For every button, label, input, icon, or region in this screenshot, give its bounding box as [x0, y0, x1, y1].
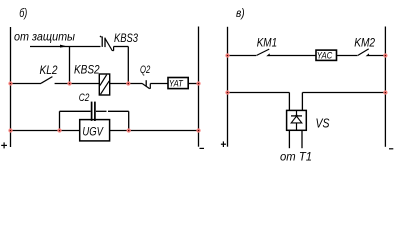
contact KM2 moving lever	[358, 49, 369, 56]
contact KM1 moving lever	[257, 49, 270, 55]
node dot: KBS3 drop / middle wire junction	[126, 81, 130, 85]
wire: KL2 to KBS2	[55, 83, 100, 85]
left supply rail (+) of circuit b	[10, 27, 12, 147]
node dot: circuit v left rail / lower wire	[225, 90, 229, 94]
right supply rail (-) of circuit b	[198, 27, 200, 147]
contact KL2 moving lever	[41, 77, 52, 84]
thyristor VS cathode bar	[291, 115, 302, 117]
wire: KM1 to YAC	[269, 55, 316, 57]
wire: UGV to right rail	[110, 130, 199, 132]
svg-text:UGV: UGV	[82, 124, 103, 138]
wire: KBS3 drop to middle wire	[127, 47, 129, 84]
wire: C2 branch left horizontal	[60, 110, 91, 112]
wire: C2 branch right horizontal part 1	[96, 110, 107, 112]
gate unit UGV box	[80, 120, 110, 141]
capacitor C2 left plate	[91, 102, 93, 121]
contact KBS3 right riser	[113, 47, 115, 51]
wire: KM2 to right rail	[369, 55, 385, 57]
contact KBS3 top serif	[100, 36, 102, 37]
wire: C2 branch right vertical	[128, 111, 130, 130]
contactor coil YAC box	[316, 50, 337, 60]
thyristor VS anode stub	[296, 123, 298, 130]
svg-text:от Т1: от Т1	[280, 149, 312, 163]
wire: lower row rail to VS left pin	[228, 92, 290, 94]
contact Q2 moving lever	[142, 83, 150, 88]
wire: KBS3 output to drop	[114, 46, 129, 48]
label minus of circuit b	[200, 147, 205, 149]
node dot: left rail / bottom wire junction	[8, 128, 12, 132]
wire: VS right top pin	[301, 93, 303, 111]
wire: middle row segment rail to KL2	[11, 83, 42, 85]
wire: KBS2 to Q2	[109, 83, 142, 85]
wire: Q2 to YAT coil	[150, 83, 168, 85]
wire: VS left control pin to T1	[288, 130, 290, 148]
thyristor VS cathode stub	[296, 110, 298, 116]
node dot: circuit v right rail / upper wire	[383, 53, 387, 57]
wire: C2 branch right horizontal part 2	[108, 110, 129, 112]
thyristor module VS box	[287, 110, 307, 130]
node dot: C2 branch right / bottom wire junction	[127, 128, 131, 132]
wire: C2 branch left vertical	[59, 111, 61, 130]
svg-text:от защиты: от защиты	[14, 30, 75, 44]
node dot: от защиты drop / middle wire junction	[67, 81, 71, 85]
wire: VS left top pin	[288, 93, 290, 111]
node dot: C2 branch left / bottom wire junction	[57, 128, 61, 132]
wire: bottom row rail to UGV	[11, 130, 80, 132]
thyristor VS gate dot	[295, 115, 297, 117]
wire: YAT to right rail	[188, 83, 198, 85]
right supply rail (-) of circuit v	[384, 27, 386, 147]
contact Q2 fixed tick	[145, 80, 147, 86]
wire: YAC to KM2	[337, 55, 358, 57]
node dot: left rail / middle wire junction	[8, 81, 12, 85]
svg-text:KBS3: KBS3	[114, 31, 138, 45]
wire: drop from protection line to middle wire	[69, 47, 71, 84]
thyristor VS triangle	[291, 116, 302, 123]
contact KBS3 fixed tick A	[101, 36, 103, 47]
svg-text:YAT: YAT	[169, 78, 184, 89]
svg-text:VS: VS	[316, 116, 330, 131]
wire: VS right pin to right rail	[302, 92, 385, 94]
svg-text:KBS2: KBS2	[74, 63, 100, 77]
svg-text:KL2: KL2	[40, 63, 58, 77]
label plus of circuit v	[221, 141, 226, 147]
wire: VS right control pin to T1	[301, 130, 303, 148]
svg-text:KM2: KM2	[354, 35, 375, 49]
node dot: circuit v right rail / lower wire	[383, 90, 387, 94]
svg-text:б): б)	[19, 6, 27, 20]
contact KM1 arrowhead	[266, 53, 270, 56]
contact KBS3 moving lever	[105, 38, 114, 51]
node dot: right rail / middle wire junction	[196, 81, 200, 85]
wire: upper row rail to KM1	[228, 55, 257, 57]
svg-text:Q2: Q2	[140, 64, 150, 76]
contact Q2 right riser	[149, 84, 151, 89]
wire: top line from protection	[30, 46, 101, 48]
arrowhead on protection wire	[60, 45, 67, 48]
KBS2 hatch diagonal 1	[100, 75, 107, 86]
release coil YAT box	[168, 78, 188, 89]
left supply rail (+) of circuit v	[227, 27, 229, 147]
svg-text:KM1: KM1	[257, 35, 277, 49]
label minus of circuit v	[389, 148, 393, 150]
node dot: right rail / bottom wire junction	[196, 128, 200, 132]
label plus of circuit b	[1, 142, 7, 148]
node dot: circuit v left rail / upper wire	[225, 53, 229, 57]
contact KM2 arrowhead	[366, 53, 370, 56]
brake interlock KBS2 box	[99, 74, 109, 95]
contact KBS3 fixed tick B	[104, 38, 106, 48]
svg-text:в): в)	[236, 6, 245, 20]
svg-text:C2: C2	[79, 92, 90, 104]
KBS2 hatch diagonal 2	[101, 81, 110, 94]
svg-text:YAC: YAC	[317, 50, 333, 61]
capacitor C2 right plate	[94, 102, 96, 121]
